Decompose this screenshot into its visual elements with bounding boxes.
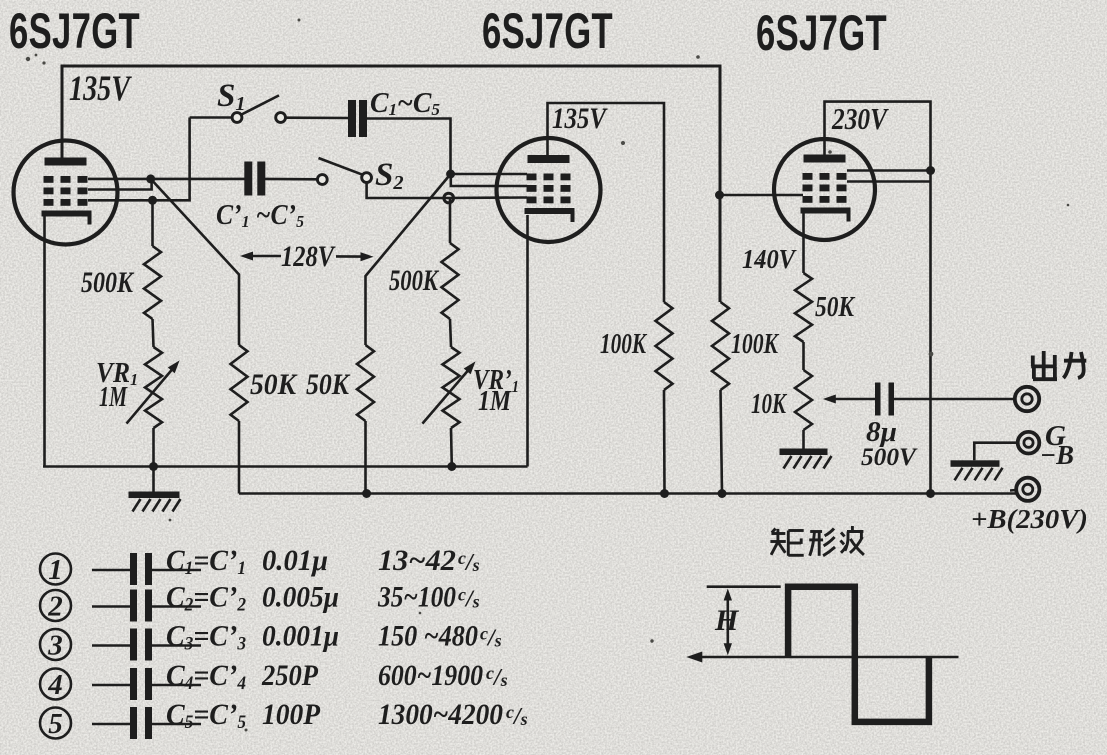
resistor 50K (left)	[231, 345, 248, 421]
svg-text:5: 5	[48, 708, 63, 740]
wire: 50K left bottom to B+ rail	[238, 421, 241, 494]
switch S2 right contact	[362, 173, 372, 183]
resistor 500K (second)	[442, 243, 459, 319]
wire: V2 top grid lead	[451, 173, 528, 176]
ground symbol (G terminal)	[951, 460, 1000, 467]
tube V1 (6SJ7GT)	[14, 141, 118, 245]
node: 100K left rail junction	[660, 489, 669, 498]
tube V2 (6SJ7GT)	[497, 138, 601, 242]
svg-text:100P: 100P	[262, 698, 321, 731]
svg-text:C1=C’1: C1=C’1	[166, 544, 246, 579]
node: screen B+ junction	[926, 166, 935, 175]
table row 3: circled number	[40, 629, 71, 660]
terminal: output (shutsuryoku)	[1015, 387, 1039, 411]
wire: cathode ground rail	[43, 465, 528, 468]
capacitor C'1-C'5	[244, 162, 252, 196]
svg-text:35~100: 35~100	[377, 581, 456, 614]
node: B+ riser rail junction	[926, 489, 935, 498]
capacitor C1-C5	[348, 100, 356, 137]
wire: V1 grid to C'1-C'5	[151, 178, 246, 181]
node: 50K second rail junction	[362, 489, 371, 498]
svg-text:500V: 500V	[861, 444, 918, 471]
svg-text:13~42: 13~42	[378, 544, 456, 577]
table row 5: circled number	[40, 708, 71, 739]
wire: S1 right contact to C1-C5	[286, 116, 349, 119]
table row 5: capacitor symbol	[92, 723, 130, 726]
svg-text:600~1900: 600~1900	[378, 659, 483, 692]
dimension 128V left arrow	[252, 255, 281, 258]
svg-text:C3=C’3: C3=C’3	[166, 620, 246, 655]
switch S2 lever	[319, 158, 363, 175]
wire: B+ bottom rail	[239, 492, 1016, 495]
svg-text:500K: 500K	[389, 264, 439, 297]
label: square wave kanji (ha)	[841, 526, 864, 555]
arrow of VR1	[127, 366, 176, 424]
svg-text:C1~C5: C1~C5	[370, 88, 440, 119]
wire: C'1-C'5 to S2 left contact	[263, 178, 318, 181]
svg-text:C5=C’5: C5=C’5	[166, 698, 246, 733]
svg-text:+B(230V): +B(230V)	[971, 504, 1088, 534]
svg-text:2: 2	[47, 591, 63, 623]
dimension 128V right arrow	[336, 255, 362, 258]
tube V3 (6SJ7GT)	[774, 139, 875, 240]
wire: V2 junction down to 500K	[449, 198, 452, 243]
wire: diagonal V1 grid to 50K	[151, 179, 239, 345]
table row 2: circled number	[40, 590, 71, 621]
svg-text:50K: 50K	[250, 368, 298, 401]
svg-text:−B: −B	[1040, 440, 1074, 470]
svg-text:230V: 230V	[831, 101, 889, 136]
svg-text:100K: 100K	[600, 328, 647, 360]
wire: S2 right contact down and to V2 grid lead	[367, 182, 444, 198]
table row 3: capacitor symbol	[92, 644, 130, 647]
svg-text:50K: 50K	[815, 292, 856, 323]
node: VR1 rail junction	[149, 462, 158, 471]
terminal: G	[1018, 432, 1040, 454]
wire: V3 screen lead upper	[847, 169, 931, 172]
node: V1 lower lead junction	[148, 196, 157, 205]
wire: V1 cathode lead down left side	[43, 214, 46, 467]
waveform: H dimension arrow	[726, 594, 729, 650]
resistor 50K (second)	[357, 345, 374, 421]
svg-text:1M: 1M	[478, 386, 512, 417]
wire: 8uF to output terminal	[894, 398, 1015, 401]
wire: 50K to 10K	[802, 342, 805, 370]
wire: V2 cathode lead	[526, 215, 529, 467]
wire: S1 left contact to riser	[190, 116, 233, 119]
ground symbol (cathode divider)	[780, 449, 828, 456]
waveform: top reference line	[707, 585, 781, 588]
wire: V3 grid lead	[720, 194, 804, 197]
svg-text:135V: 135V	[69, 68, 132, 108]
wire: V2 middle grid lead	[451, 174, 527, 186]
svg-text:140V: 140V	[742, 244, 797, 274]
wire: top bus from V1 plate to 100K riser	[62, 66, 720, 302]
label: square wave kanji (ku)	[770, 529, 803, 556]
arrow of VR'1	[422, 367, 471, 424]
node: V2 lower lead junction	[444, 193, 454, 203]
wire: G terminal to ground	[974, 443, 1017, 461]
node: V1 grid junction	[146, 174, 155, 183]
wire: 10K to ground	[802, 430, 805, 449]
resistor 100K (left)	[656, 302, 673, 390]
svg-text:3: 3	[47, 630, 63, 662]
table row 2: capacitor symbol	[92, 605, 130, 608]
label: square wave kanji (kei)	[809, 529, 835, 556]
wire: 500K to VR'1	[450, 319, 451, 347]
wire: 50K second bottom to B+ rail	[364, 421, 367, 494]
terminal: +B 230V	[1016, 478, 1039, 501]
wire: V1 top grid lead	[88, 178, 152, 181]
waveform: time axis with left arrow	[697, 656, 959, 659]
wire: V3 screen lead lower	[847, 180, 931, 183]
waveform: square wave trace	[788, 587, 929, 722]
wire: VR'1 to ground rail	[450, 428, 453, 467]
node: 100K right rail junction	[718, 489, 727, 498]
svg-text:6SJ7GT: 6SJ7GT	[9, 3, 140, 59]
svg-text:1M: 1M	[99, 382, 128, 413]
node: V3 grid tap junction	[715, 191, 724, 200]
wire: 100K left to rail	[663, 390, 666, 494]
potentiometer 10K	[795, 370, 812, 430]
potentiometer VR'1 1M	[443, 347, 460, 428]
svg-text:100K: 100K	[731, 328, 779, 360]
svg-text:C4=C’4: C4=C’4	[166, 659, 246, 694]
svg-text:250P: 250P	[261, 659, 318, 692]
wire: V1 junction down to 500K	[151, 200, 154, 246]
svg-text:150 ~480: 150 ~480	[378, 620, 478, 653]
capacitor 8uF 500V	[875, 383, 881, 416]
wire: V3 cathode lead	[802, 212, 805, 273]
svg-text:1: 1	[48, 554, 63, 586]
svg-text:135V: 135V	[552, 102, 608, 135]
node: V2 grid junction	[446, 170, 455, 179]
svg-text:50K: 50K	[306, 368, 351, 401]
wire: V3 plate to B+ riser	[825, 102, 931, 494]
table row 4: circled number	[40, 669, 71, 700]
wire: 100K right to rail	[721, 390, 723, 494]
resistor 100K (right)	[712, 302, 729, 390]
svg-text:500K: 500K	[81, 266, 135, 299]
svg-text:6SJ7GT: 6SJ7GT	[482, 3, 613, 59]
potentiometer VR1 1M	[145, 347, 162, 428]
node: VR'1 rail junction	[447, 462, 456, 471]
ground symbol (left)	[152, 467, 155, 492]
svg-text:C2=C’2: C2=C’2	[166, 581, 246, 616]
table row 4: capacitor symbol	[92, 684, 130, 687]
switch S1 right contact	[276, 113, 286, 123]
wire: C1-C5 to V2 grid node	[366, 119, 451, 171]
switch S1 lever	[241, 95, 280, 115]
resistor 500K (left)	[144, 246, 161, 319]
svg-text:0.005μ: 0.005μ	[262, 581, 339, 614]
svg-text:0.01μ: 0.01μ	[262, 544, 328, 577]
table row 1: capacitor symbol	[92, 569, 130, 572]
svg-text:128V: 128V	[281, 240, 336, 273]
wire: 500K to VR1	[153, 319, 154, 347]
wire: diagonal V2 grid to 50K	[366, 174, 451, 345]
wiper arrow into 10K	[833, 398, 875, 401]
svg-text:0.001μ: 0.001μ	[262, 620, 339, 653]
wire: V2 plate lead up and right	[548, 103, 665, 302]
svg-text:1300~4200: 1300~4200	[378, 698, 503, 731]
wire: V2 bottom grid lead	[444, 196, 527, 199]
wire: V1 middle grid lead	[88, 180, 152, 190]
switch S2 left contact	[317, 175, 327, 185]
wire: VR1 to ground rail	[152, 428, 155, 467]
wire: V1 bottom grid lead to S1 riser	[88, 118, 190, 201]
label: output kanji (shutsu)	[1031, 351, 1057, 379]
svg-text:4: 4	[47, 669, 63, 701]
svg-text:6SJ7GT: 6SJ7GT	[756, 5, 887, 61]
resistor 50K (cathode)	[795, 273, 812, 342]
table row 1: circled number	[40, 554, 71, 585]
switch S1 left contact	[232, 113, 242, 123]
svg-text:10K: 10K	[751, 389, 788, 420]
label: output kanji (ryoku)	[1063, 352, 1086, 378]
svg-text:C’1 ~C’5: C’1 ~C’5	[216, 200, 304, 231]
wire: rail to +B terminal	[1010, 489, 1016, 492]
